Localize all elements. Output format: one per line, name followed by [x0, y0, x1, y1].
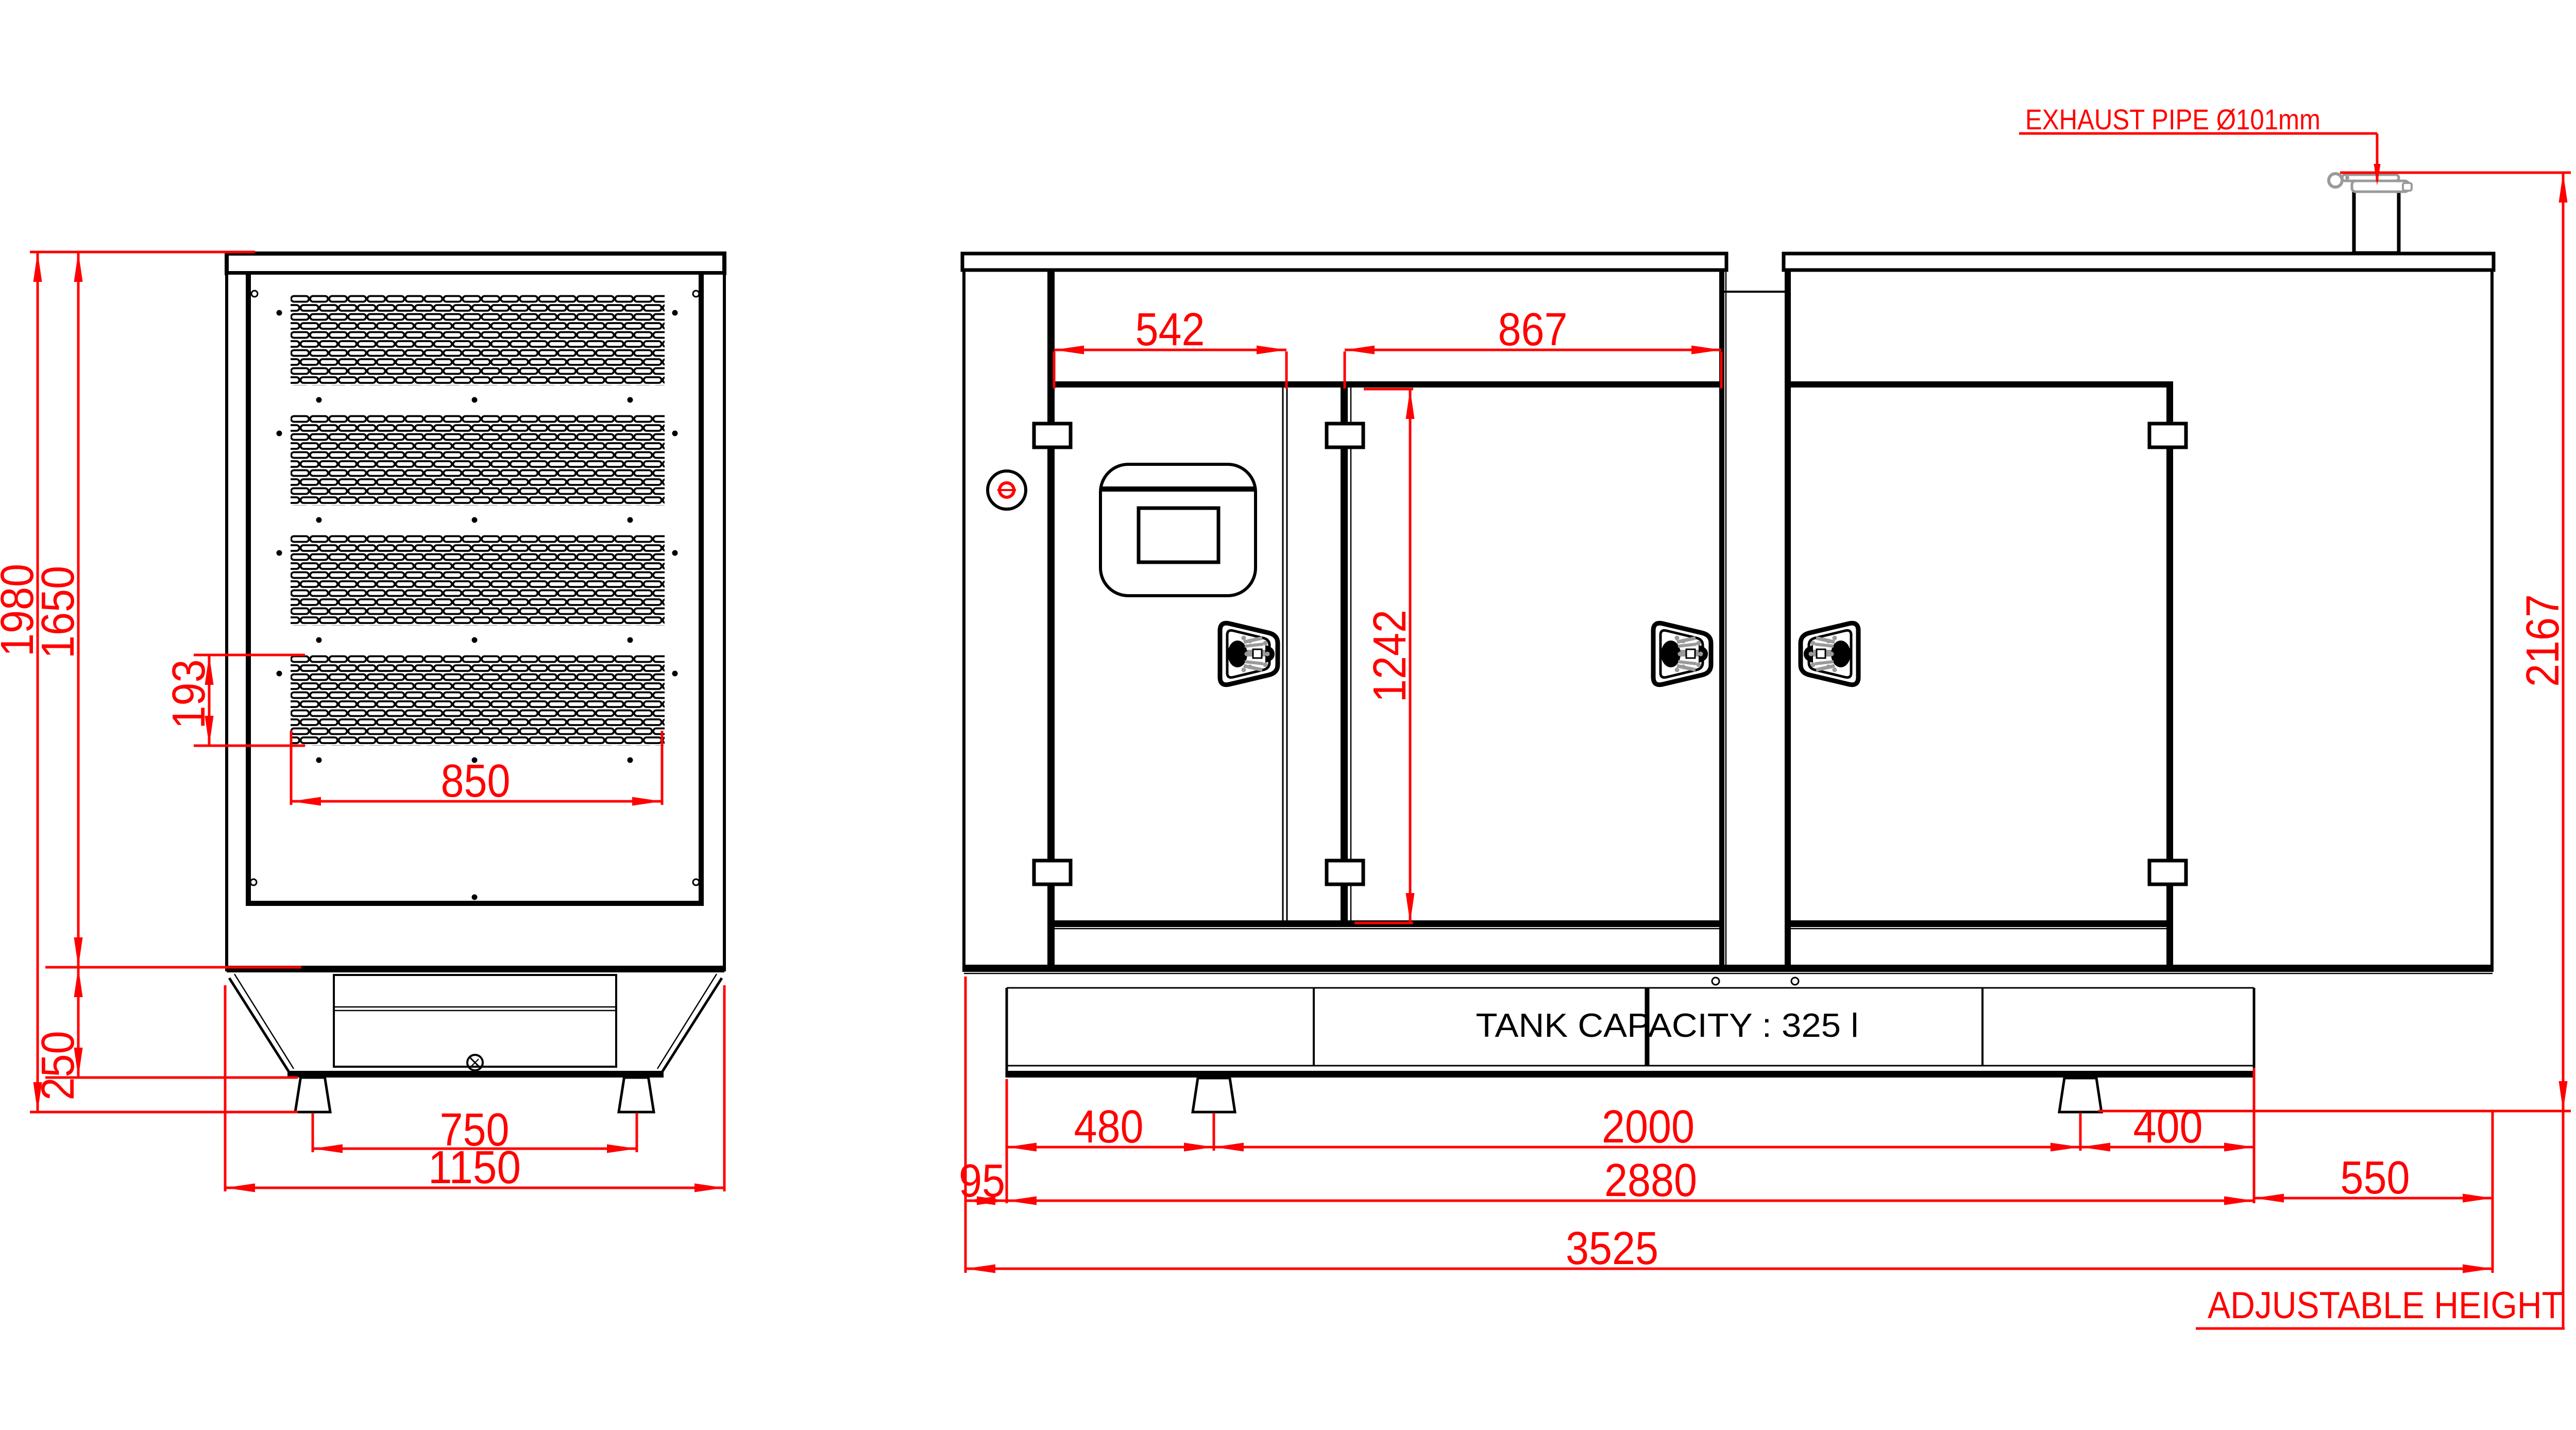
dim 1150 overall width	[224, 985, 227, 1191]
svg-text:550: 550	[2341, 1152, 2410, 1204]
main doors bottom rail	[1055, 920, 1720, 927]
svg-text:480: 480	[1074, 1101, 1144, 1153]
front right foot	[619, 1078, 654, 1112]
front view bottom rail	[227, 966, 724, 972]
radiator door bottom rail	[1788, 920, 2170, 927]
dim 1980 overall height	[30, 251, 255, 254]
svg-text:542: 542	[1136, 304, 1205, 356]
svg-text:2167: 2167	[2517, 594, 2569, 687]
dim 193 grille height	[194, 654, 305, 657]
dim 550 overhang	[2492, 1111, 2494, 1273]
side view front frame bar	[1047, 270, 1055, 966]
dim 2880 skid length	[1007, 1200, 2254, 1202]
ventilation grille band 3	[291, 535, 665, 626]
module bridge plate	[1724, 291, 1785, 293]
side left foot	[1193, 1078, 1235, 1112]
skid divider 1	[1313, 988, 1315, 1066]
front view enclosure cap	[227, 254, 724, 273]
door 2 hinge bottom	[1327, 861, 1363, 884]
door 2 latch	[1653, 623, 1711, 684]
dim 750 feet spacing	[312, 1113, 314, 1152]
svg-text:193: 193	[163, 660, 215, 729]
front view lower rail	[246, 901, 704, 906]
fuel tank skid	[1007, 987, 2254, 989]
svg-text:2880: 2880	[1604, 1155, 1697, 1206]
ventilation grille band 2	[291, 415, 665, 506]
side view radiator module right edge	[2490, 270, 2494, 972]
dim 542 door width	[1053, 351, 1056, 389]
dim 867 door width	[1344, 351, 1346, 389]
door 1 hinge top	[1034, 424, 1071, 447]
radiator door hinge bar	[2166, 381, 2173, 966]
svg-text:95: 95	[959, 1155, 1005, 1207]
front base drain screw	[467, 1055, 483, 1070]
front base tank box	[334, 975, 616, 1067]
svg-text:250: 250	[32, 1031, 84, 1101]
svg-text:867: 867	[1498, 304, 1568, 356]
exhaust pipe	[2354, 182, 2399, 253]
door 1 hinge bottom	[1034, 861, 1071, 884]
dim 2000 feet spacing	[2079, 1113, 2082, 1151]
front view body outline	[227, 273, 724, 970]
front base left taper	[229, 978, 290, 1073]
svg-text:2000: 2000	[1602, 1101, 1694, 1153]
front panel screws	[250, 291, 699, 900]
svg-text:3525: 3525	[1566, 1223, 1658, 1274]
emergency stop emblem	[988, 471, 1026, 509]
dim 1650 body height	[45, 966, 301, 969]
dim 400	[2253, 1068, 2256, 1203]
skid divider 2	[1645, 988, 1650, 1066]
dim 2167 overall height with exhaust	[2340, 172, 2571, 174]
front view right frame bar	[699, 274, 704, 906]
front base bottom plate	[287, 1071, 664, 1078]
dim 250 base height	[45, 1076, 298, 1079]
side view main module right edge	[1719, 270, 1724, 972]
main doors top rail	[1055, 381, 1720, 388]
skid screws	[1712, 978, 1719, 985]
door 2 hinge bar	[1341, 388, 1348, 920]
svg-text:1150: 1150	[428, 1142, 521, 1193]
svg-text:400: 400	[2133, 1101, 2203, 1153]
dim 1242 door height	[1364, 388, 1413, 391]
radiator door top rail	[1788, 381, 2170, 388]
radiator door hinge bottom	[2149, 861, 2186, 884]
door 1 right edge	[1282, 388, 1284, 920]
front left foot	[295, 1078, 330, 1112]
dim 3525 overall length	[965, 1268, 2493, 1270]
dim 850 grille width	[290, 731, 293, 805]
side view radiator module left edge	[1785, 270, 1791, 972]
door 1 latch	[1220, 623, 1278, 684]
radiator door latch	[1801, 623, 1858, 684]
control panel window	[1100, 464, 1256, 596]
front base right taper	[662, 978, 722, 1073]
svg-text:1650: 1650	[32, 566, 84, 659]
side view bottom rail	[962, 965, 2494, 972]
side view main module cap	[962, 254, 1726, 270]
side view main module left edge	[962, 270, 965, 972]
ventilation grille band 1	[291, 295, 665, 385]
dim 95	[964, 977, 967, 1273]
front view left frame bar	[246, 274, 251, 906]
svg-text:TANK CAPACITY : 325 l: TANK CAPACITY : 325 l	[1476, 1006, 1859, 1044]
svg-text:850: 850	[441, 755, 511, 807]
dim 480	[1006, 1079, 1008, 1203]
skid divider 3	[1981, 988, 1984, 1066]
svg-text:1242: 1242	[1364, 610, 1416, 702]
radiator door hinge top	[2149, 424, 2186, 447]
svg-text:EXHAUST PIPE Ø101mm: EXHAUST PIPE Ø101mm	[2025, 103, 2320, 136]
svg-text:ADJUSTABLE HEIGHT: ADJUSTABLE HEIGHT	[2208, 1285, 2563, 1326]
exhaust clamp flange	[2342, 175, 2399, 181]
door 2 hinge top	[1327, 424, 1363, 447]
side right foot	[2059, 1078, 2102, 1112]
ventilation grille band 4	[291, 655, 665, 746]
side view radiator module cap	[1784, 254, 2494, 270]
